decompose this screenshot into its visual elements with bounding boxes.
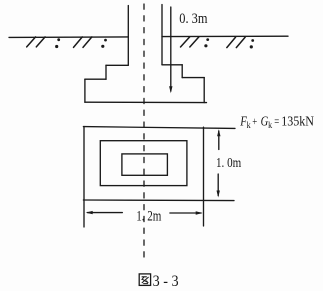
caption text 3 - 3 [153,273,179,290]
column right edge [161,5,163,65]
svg-text:=: = [274,114,279,128]
dimension 1.2m right segment [170,212,201,214]
footing step2 top left [85,78,106,80]
depth arrow 0.3m (head) [169,86,172,93]
label 0.3m [179,11,208,27]
footing step1 top left [106,64,128,66]
svg-text:k: k [268,121,272,131]
svg-text:1. 2m: 1. 2m [136,208,161,224]
dimension 1.2m right arrowhead [196,211,203,214]
plan outer rectangle bottom edge with extension [83,199,234,202]
plan outer rectangle top edge with extension to load label [83,127,235,129]
plan inner rectangle (column) [122,154,167,175]
footing outer side left [84,79,86,102]
ground line right [162,35,288,37]
svg-text:1. 0m: 1. 0m [216,156,241,171]
centerline (vertical dash axis) [143,4,145,260]
footing step2 top right [182,77,204,79]
soil hatch group D (right) [227,37,254,48]
svg-text:0. 3m: 0. 3m [179,11,208,27]
label 1.2m [136,208,161,224]
label 1.0m [216,156,241,171]
svg-text:k: k [247,121,251,131]
depth arrow 0.3m (shaft) [170,7,172,91]
dimension 1.2m left arrowhead [86,211,93,214]
svg-text:135kN: 135kN [281,114,314,129]
footing bottom line [85,101,207,103]
dimension 1.0m upper arrowhead [217,129,220,136]
footing step1 side left [105,65,107,79]
svg-text:+: + [252,114,257,128]
dimension 1.0m lower segment [217,174,219,196]
column left edge [127,6,129,66]
footing step1 side right [181,65,183,78]
dimension 1.0m lower arrowhead [217,191,220,198]
plan outer rectangle left edge with extension below [83,127,85,227]
footing step1 top right [162,64,182,66]
soil hatch group C (right) [181,37,210,48]
plan middle rectangle [100,141,187,186]
svg-text:G: G [261,115,269,130]
caption glyph 图 [139,274,150,286]
ground line left [9,36,128,39]
footing outer side right [203,78,205,103]
load label Fk+Gk=135kN [239,114,314,132]
dimension 1.0m upper segment [218,131,220,150]
soil hatch group A (left) [27,37,60,48]
svg-text:3 - 3: 3 - 3 [153,273,179,290]
soil hatch group B (left) [74,37,107,48]
dimension 1.2m left segment [88,212,123,214]
plan outer rectangle right edge with extension below [203,127,205,226]
